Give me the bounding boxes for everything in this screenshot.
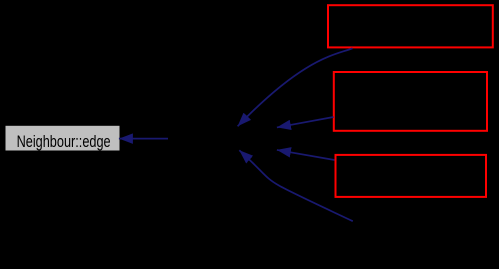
node Neighbour::edge	[6, 126, 120, 151]
node red box bottom	[336, 155, 487, 197]
svg-text:Neighbour::edge: Neighbour::edge	[17, 133, 111, 151]
edge bottom hidden node to middle-node	[239, 150, 352, 221]
edge red box bottom to middle-node	[277, 150, 335, 160]
edge red box middle to middle-node	[277, 117, 334, 127]
edge red box top to middle-node	[238, 48, 353, 126]
node red box middle	[334, 72, 487, 131]
edge middle-node to Neighbour::edge	[119, 138, 168, 140]
node red box top	[328, 5, 493, 47]
